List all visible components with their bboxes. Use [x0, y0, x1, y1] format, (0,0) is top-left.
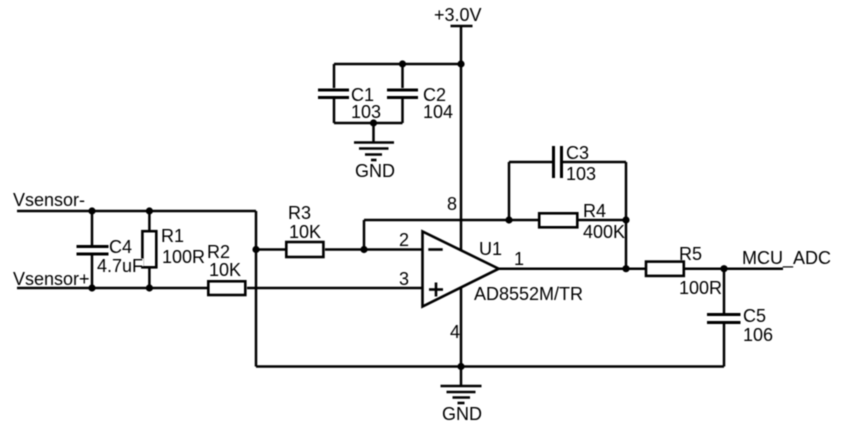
- net label Vsensor-: [13, 191, 85, 209]
- wire power rail vertical (pin 8 rail): [460, 26, 463, 251]
- wire output: [498, 267, 646, 270]
- wire bottom rail: [256, 365, 724, 368]
- node junction power rail / cap rail: [457, 60, 464, 67]
- pin number 2: [399, 231, 409, 249]
- ground GND (bottom): [441, 367, 482, 404]
- wire Vsensor- horizontal: [17, 210, 256, 213]
- node junction R3 tap: [252, 246, 259, 253]
- resistor R5: [646, 262, 684, 276]
- resistor R4: [539, 213, 626, 227]
- node junction C2 top: [399, 60, 406, 67]
- pin number 4: [450, 323, 460, 341]
- C1 reference label: [351, 86, 374, 104]
- wire pin 4: [460, 288, 463, 367]
- C4 reference label: [109, 238, 132, 256]
- power symbol +3.0V bar: [451, 25, 473, 28]
- node junction GND tap: [370, 119, 377, 126]
- capacitor C1: [318, 64, 349, 123]
- wire pin3 input: [247, 287, 422, 290]
- resistor R3: [256, 242, 364, 257]
- node junction C3 left: [505, 216, 512, 223]
- net label Vsensor+: [13, 270, 90, 288]
- C3 value label 103: [566, 165, 596, 183]
- R5 value label 100R: [679, 279, 722, 297]
- U1 reference label: [479, 240, 502, 258]
- ground GND (top): [354, 123, 394, 160]
- node junction output/feedback: [622, 265, 629, 272]
- node junction C4 top: [88, 207, 95, 214]
- capacitor C2: [387, 64, 418, 123]
- C2 value label 104: [423, 103, 453, 121]
- net label MCU_ADC: [742, 249, 831, 267]
- C2 reference label: [423, 86, 446, 104]
- pin number 3: [399, 270, 409, 288]
- node junction C3/R4 right: [622, 216, 629, 223]
- C3 reference label: [566, 144, 589, 162]
- node junction C5 tap: [720, 265, 727, 272]
- C1 value label 103: [351, 103, 381, 121]
- R3 value label 10K: [289, 223, 321, 241]
- node junction R1 top: [146, 207, 153, 214]
- node junction pin2/feedback: [360, 246, 367, 253]
- R4 value label 400K: [583, 223, 625, 241]
- GND label (top): [355, 162, 395, 180]
- wire top cap rail: [334, 63, 461, 66]
- pin number 8: [447, 195, 457, 213]
- R3 reference label: [288, 204, 311, 222]
- R2 reference label: [207, 243, 230, 261]
- GND label (bottom): [442, 405, 482, 423]
- wire feedback to output: [625, 220, 628, 269]
- R2 value label 10K: [209, 261, 241, 279]
- node junction GND bottom: [457, 363, 464, 370]
- R5 reference label: [679, 245, 702, 263]
- wire feedback riser: [363, 220, 366, 250]
- C4 value label 4.7uF: [97, 257, 143, 275]
- capacitor C4: [77, 211, 109, 288]
- node junction C4 bottom: [88, 284, 95, 291]
- resistor R2: [208, 281, 245, 295]
- C4 value label background notch: [96, 259, 144, 267]
- R4 reference label: [583, 202, 606, 220]
- wire Vsensor- vertical drop: [255, 211, 258, 367]
- wire cap bottom bus: [334, 122, 403, 125]
- wire pin2 input: [364, 248, 422, 251]
- resistor R1: [142, 211, 156, 288]
- R1 reference label: [161, 227, 184, 245]
- wire Vsensor+ horizontal: [17, 287, 207, 290]
- pin number 1: [514, 250, 524, 268]
- wire R5 to MCU_ADC: [684, 267, 783, 270]
- C5 reference label: [743, 307, 766, 325]
- wire feedback horizontal: [364, 219, 539, 222]
- capacitor C3: [509, 146, 626, 220]
- R1 value label 100R: [162, 248, 205, 266]
- node junction R1 bottom: [146, 284, 153, 291]
- U1 part number label: [474, 285, 583, 303]
- capacitor C5: [707, 269, 741, 367]
- C5 value label 106: [743, 326, 773, 344]
- op-amp U1: [423, 232, 499, 307]
- net label +3.0V: [434, 6, 482, 24]
